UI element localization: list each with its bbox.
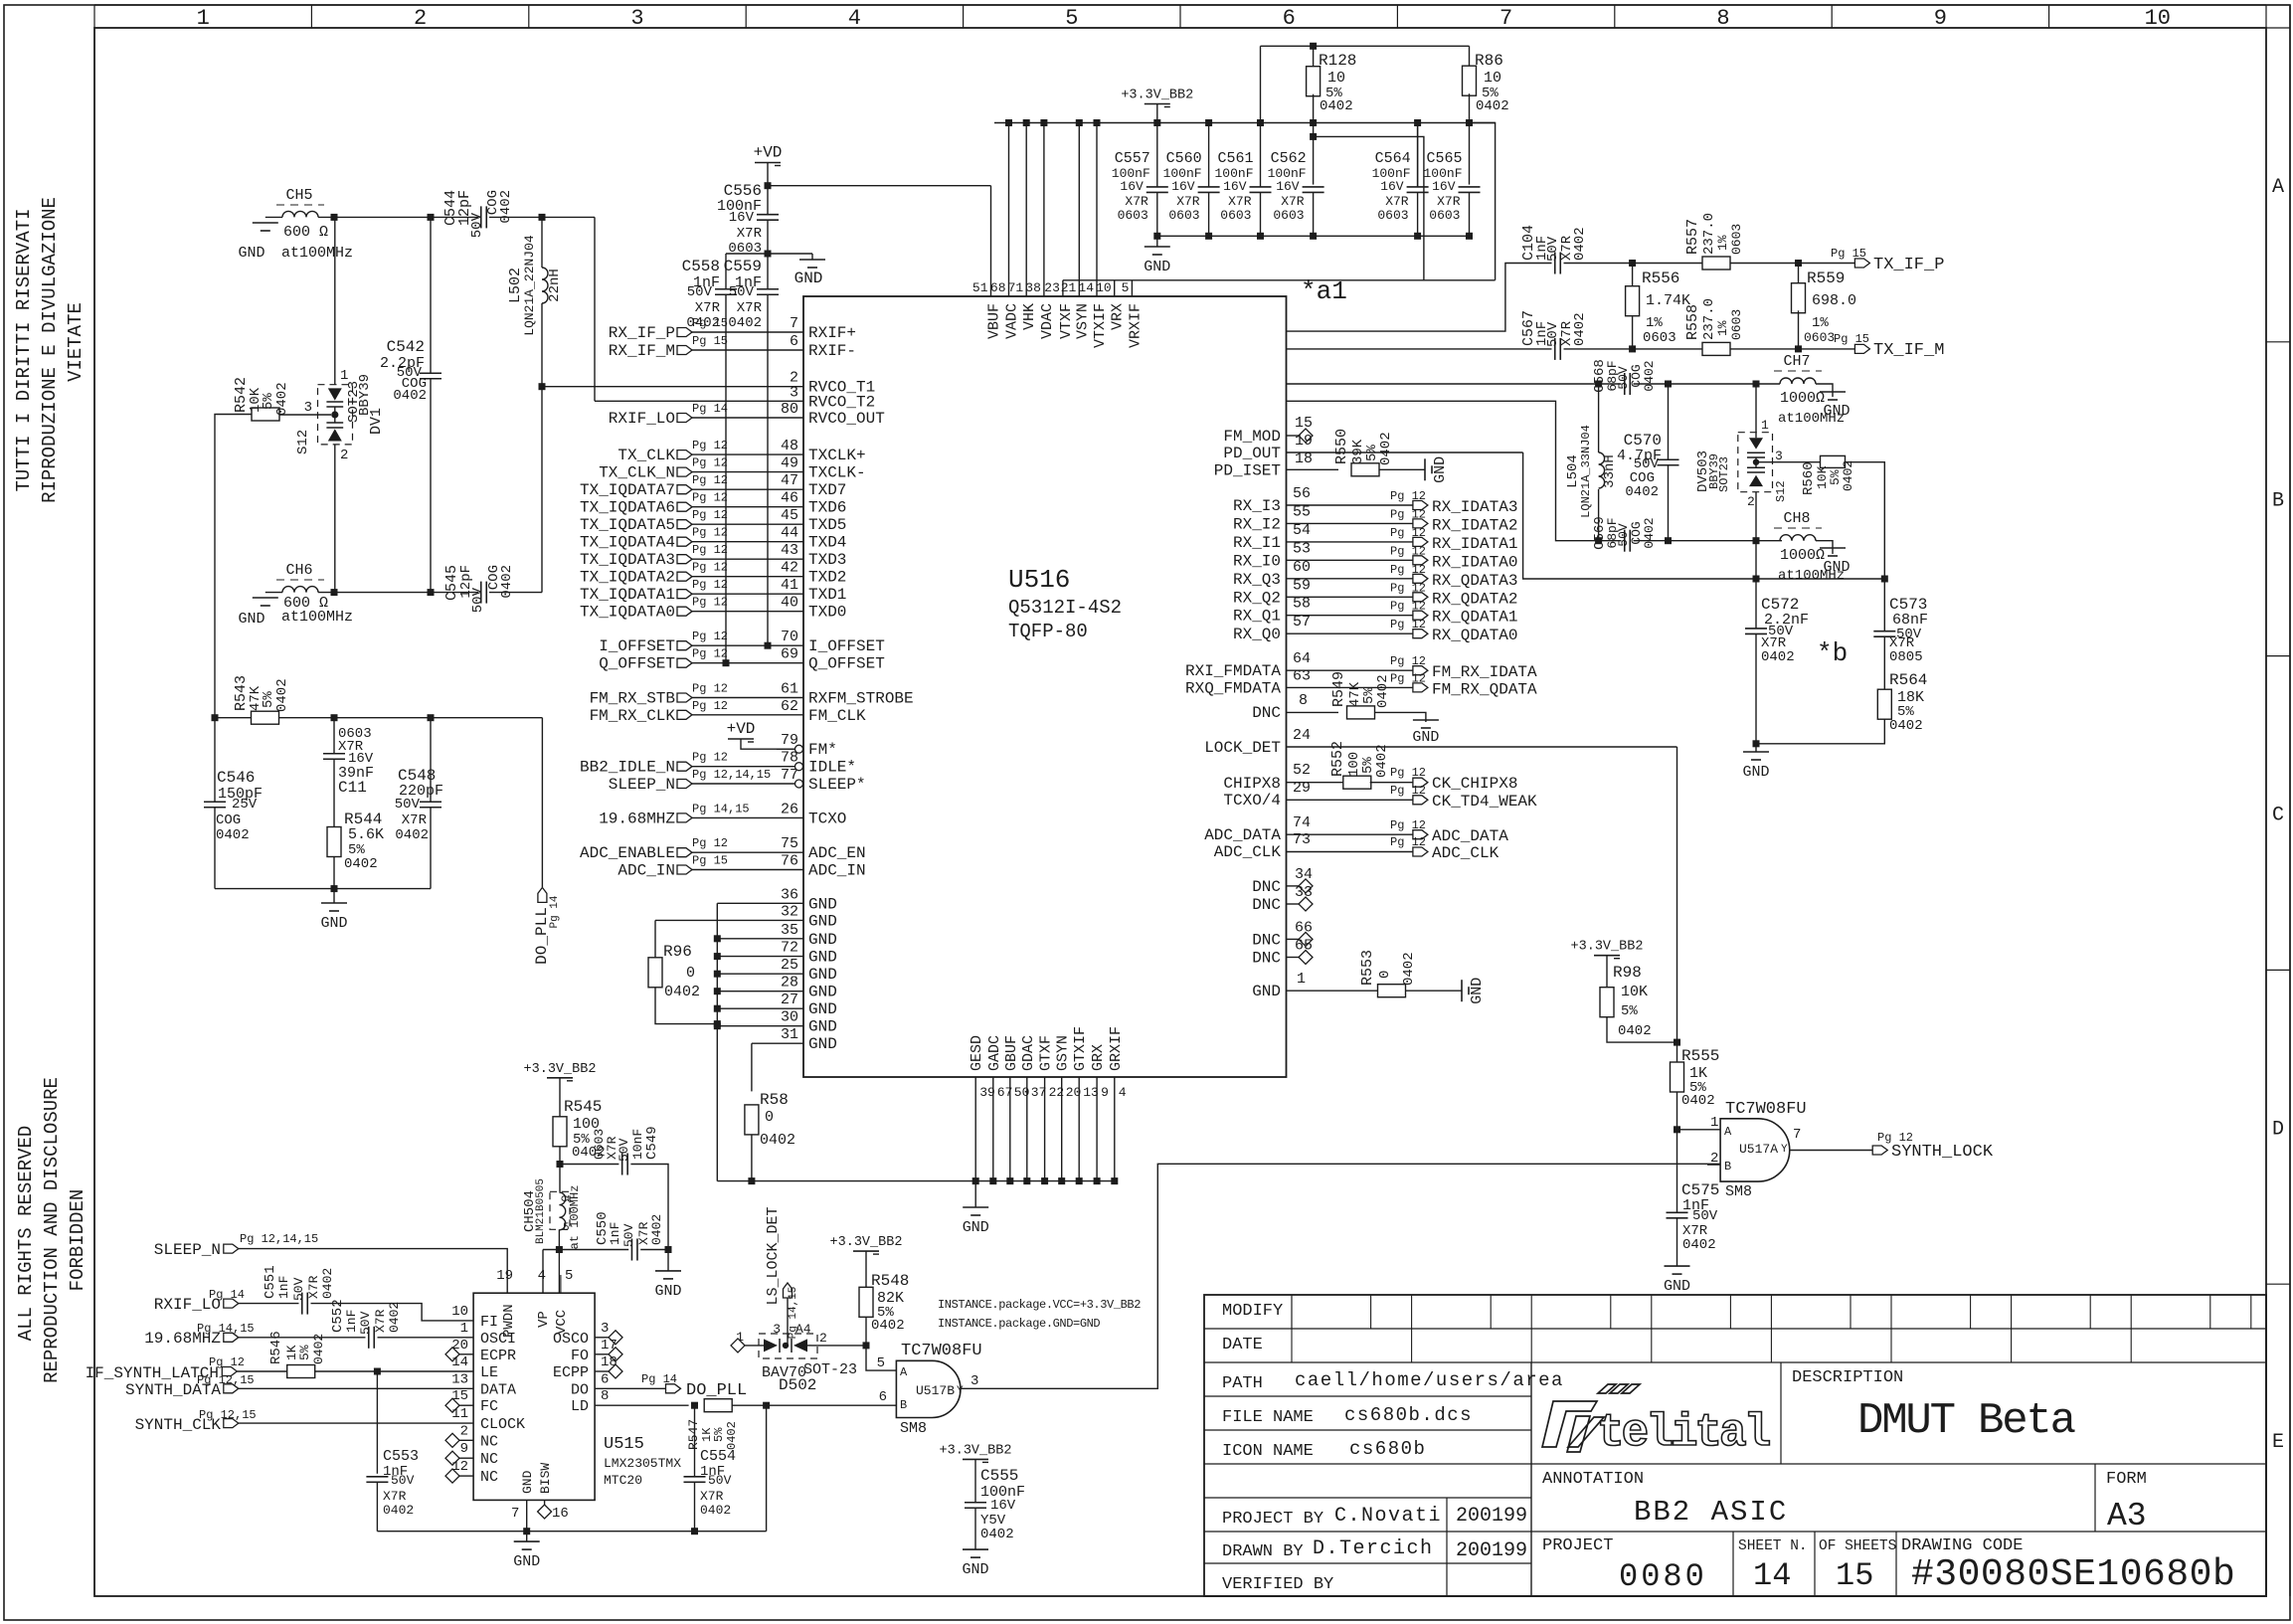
svg-text:10: 10 bbox=[451, 1304, 468, 1320]
svg-text:U516: U516 bbox=[1008, 565, 1070, 595]
svg-text:GND: GND bbox=[808, 984, 837, 1001]
wire CH7 right bbox=[1816, 384, 1833, 397]
svg-text:3: 3 bbox=[1775, 449, 1783, 463]
connector SLEEP_N bbox=[677, 780, 692, 789]
junction bbox=[1753, 576, 1760, 583]
svg-text:50V: 50V bbox=[470, 587, 486, 613]
pin 22 GTXF bbox=[1044, 1077, 1046, 1181]
capacitor C546 bbox=[214, 718, 216, 803]
svg-text:14: 14 bbox=[451, 1354, 468, 1370]
title block outline bbox=[1204, 1295, 2266, 1596]
svg-text:GND: GND bbox=[238, 611, 265, 628]
wire R559 bottom bbox=[1798, 310, 1800, 349]
svg-text:52: 52 bbox=[1293, 762, 1311, 779]
resistor R548 bbox=[859, 1287, 873, 1317]
wire C555 bottom bbox=[974, 1508, 976, 1549]
svg-text:PD_ISET: PD_ISET bbox=[1214, 462, 1281, 480]
connector FM_RX_IDATA bbox=[1413, 666, 1428, 675]
svg-text:3: 3 bbox=[304, 400, 312, 416]
wire DV1 pin2 down bbox=[334, 445, 336, 593]
capacitor C569 bbox=[1624, 530, 1626, 552]
svg-text:Q_OFFSET: Q_OFFSET bbox=[808, 655, 885, 673]
svg-text:VTXIF: VTXIF bbox=[1092, 303, 1109, 348]
wire L502 bottom bbox=[541, 303, 543, 387]
wire R545 top bbox=[559, 1078, 561, 1117]
ground R553 bbox=[1461, 980, 1463, 1001]
svg-text:RVCO_T2: RVCO_T2 bbox=[808, 393, 875, 411]
wire pin12 TXIF+ route bbox=[1287, 264, 1552, 332]
svg-text:GND: GND bbox=[808, 1018, 837, 1036]
svg-text:1%: 1% bbox=[1646, 315, 1663, 331]
svg-text:RX_QDATA1: RX_QDATA1 bbox=[1432, 609, 1517, 627]
gate U517A bbox=[1720, 1119, 1790, 1181]
wire CH6 row bbox=[318, 592, 478, 594]
capacitor C573 bbox=[1873, 631, 1895, 632]
connector FM_RX_CLK bbox=[677, 710, 692, 719]
svg-text:TX_IQDATA5: TX_IQDATA5 bbox=[580, 516, 675, 534]
svg-text:53: 53 bbox=[1293, 540, 1311, 557]
resistor R128 bbox=[1313, 46, 1315, 69]
svg-text:RX_I3: RX_I3 bbox=[1233, 497, 1281, 515]
pin 40 TXD0 bbox=[691, 611, 803, 613]
svg-text:10: 10 bbox=[2145, 6, 2171, 31]
svg-text:TC7W08FU: TC7W08FU bbox=[901, 1342, 982, 1360]
pin 2 RVCO_T1 bbox=[777, 386, 803, 388]
wire LS_LOCK_DET down bbox=[787, 1298, 789, 1346]
svg-text:X7R: X7R bbox=[402, 812, 428, 828]
wire CH5 to C544 bbox=[318, 216, 478, 218]
svg-text:B: B bbox=[900, 1398, 907, 1412]
capacitor C559 bbox=[767, 254, 769, 289]
ground bottom bus bbox=[974, 1181, 976, 1207]
svg-text:ECPR: ECPR bbox=[480, 1348, 516, 1364]
svg-text:C546: C546 bbox=[217, 769, 255, 787]
ground CH7 bbox=[1820, 391, 1846, 393]
svg-text:Q5312I-4S2: Q5312I-4S2 bbox=[1008, 597, 1122, 619]
svg-text:RX_IF_P: RX_IF_P bbox=[609, 324, 675, 342]
svg-text:25V: 25V bbox=[232, 797, 258, 812]
resistor R558 bbox=[1702, 342, 1730, 355]
pin 63 RXQ_FMDATA bbox=[1287, 686, 1413, 688]
capacitor C557 bbox=[1156, 123, 1158, 187]
wire rail drop left bbox=[1260, 46, 1262, 122]
svg-text:TXD5: TXD5 bbox=[808, 516, 846, 534]
pin 6 RXIF- bbox=[691, 349, 803, 351]
capacitor C560 bbox=[1208, 123, 1210, 187]
svg-text:RX_IDATA3: RX_IDATA3 bbox=[1432, 498, 1517, 516]
wire R548 bottom bbox=[865, 1317, 867, 1346]
wire R555 top bbox=[1676, 1042, 1678, 1062]
svg-text:X7R: X7R bbox=[737, 226, 763, 242]
svg-text:24: 24 bbox=[1293, 727, 1311, 744]
wire L502 col to C545 row bbox=[541, 387, 543, 593]
wire U517A input B bbox=[1707, 1164, 1720, 1166]
svg-text:+3.3V_BB2: +3.3V_BB2 bbox=[830, 1235, 903, 1250]
pin 36 GND bbox=[717, 902, 803, 904]
ground U515 bbox=[526, 1532, 528, 1541]
junction bbox=[714, 1005, 721, 1012]
svg-text:Pg 12: Pg 12 bbox=[692, 491, 728, 505]
svg-text:DO_PLL: DO_PLL bbox=[686, 1381, 747, 1400]
svg-text:R558: R558 bbox=[1684, 304, 1701, 340]
svg-text:0402: 0402 bbox=[1374, 744, 1390, 778]
svg-text:0402: 0402 bbox=[871, 1318, 905, 1334]
wire gnd bus left low bbox=[215, 888, 431, 890]
svg-text:I_OFFSET: I_OFFSET bbox=[808, 637, 885, 655]
pin 80 RVCO_OUT bbox=[691, 417, 803, 419]
svg-text:DNC: DNC bbox=[1252, 704, 1281, 722]
capacitor C550 bbox=[630, 1239, 632, 1261]
svg-text:RXIF+: RXIF+ bbox=[808, 324, 856, 342]
svg-text:R128: R128 bbox=[1319, 52, 1356, 70]
svg-text:X7R: X7R bbox=[373, 1309, 388, 1333]
wire CH504 to VCC bbox=[558, 1229, 560, 1293]
wire RXIF_LO to C551 bbox=[239, 1303, 299, 1305]
ground R549 bbox=[1413, 719, 1439, 721]
svg-text:X7R: X7R bbox=[700, 1489, 724, 1504]
pin 44 TXD4 bbox=[691, 541, 803, 543]
svg-text:R86: R86 bbox=[1475, 52, 1503, 70]
junction bbox=[1629, 260, 1636, 267]
svg-text:BB2 ASIC: BB2 ASIC bbox=[1634, 1496, 1788, 1529]
svg-text:0402: 0402 bbox=[760, 1132, 795, 1149]
wire R558 right bbox=[1730, 348, 1854, 350]
svg-text:50V: 50V bbox=[1692, 1208, 1718, 1224]
svg-text:0080: 0080 bbox=[1619, 1558, 1707, 1595]
svg-text:TX_CLK: TX_CLK bbox=[617, 447, 675, 464]
svg-text:VDAC: VDAC bbox=[1039, 303, 1056, 339]
capacitor C549 bbox=[621, 1154, 623, 1175]
wire cap bank ground bus bbox=[1157, 235, 1470, 237]
svg-text:NC: NC bbox=[480, 1433, 498, 1450]
wire C554 bottom bbox=[694, 1482, 696, 1531]
svg-text:REPRODUCTION AND DISCLOSURE: REPRODUCTION AND DISCLOSURE bbox=[41, 1077, 63, 1383]
junction bbox=[714, 935, 721, 942]
junction bbox=[1040, 119, 1047, 126]
svg-text:23: 23 bbox=[1044, 280, 1060, 295]
pin 72 GND bbox=[717, 956, 803, 958]
pin 24 LOCK_DET bbox=[1287, 746, 1677, 748]
pin 59 RX_Q2 bbox=[1287, 596, 1413, 598]
pin 21 VSYN bbox=[1078, 123, 1080, 297]
svg-text:PD_OUT: PD_OUT bbox=[1223, 445, 1281, 462]
svg-text:0402: 0402 bbox=[700, 1503, 731, 1518]
pin 8 DNC bbox=[1287, 711, 1339, 713]
svg-text:36: 36 bbox=[781, 886, 798, 903]
svg-text:0603: 0603 bbox=[1804, 330, 1835, 345]
svg-text:FM_RX_QDATA: FM_RX_QDATA bbox=[1432, 680, 1537, 698]
connector TX_CLK bbox=[677, 451, 692, 459]
svg-text:5%: 5% bbox=[712, 1427, 726, 1442]
svg-text:9: 9 bbox=[460, 1441, 468, 1457]
capacitor C562 bbox=[1303, 186, 1324, 188]
svg-text:16V: 16V bbox=[1276, 179, 1300, 194]
pin 33 DNC bbox=[1287, 903, 1300, 905]
svg-text:SLEEP_N: SLEEP_N bbox=[154, 1241, 221, 1259]
svg-text:ADC_CLK: ADC_CLK bbox=[1214, 843, 1282, 861]
svg-text:6: 6 bbox=[879, 1389, 887, 1405]
wire C569 right bbox=[1634, 540, 1783, 542]
ground C575 bbox=[1665, 1265, 1690, 1267]
connector DO_PLL out bbox=[666, 1384, 681, 1393]
pin 14 VTXIF bbox=[1096, 123, 1098, 297]
svg-text:48: 48 bbox=[781, 438, 798, 454]
svg-text:R555: R555 bbox=[1681, 1047, 1719, 1065]
svg-text:62: 62 bbox=[781, 698, 798, 715]
pin 50 GBUF bbox=[1009, 1077, 1011, 1181]
svg-text:49: 49 bbox=[781, 455, 798, 472]
wire C550 right bbox=[640, 1249, 668, 1251]
junction bbox=[714, 988, 721, 994]
svg-text:0402: 0402 bbox=[1642, 517, 1657, 548]
pin 26 TCXO bbox=[691, 816, 803, 818]
svg-text:73: 73 bbox=[1293, 831, 1311, 848]
svg-text:LQN21A_33NJ04: LQN21A_33NJ04 bbox=[1579, 425, 1593, 518]
pin 54 RX_I1 bbox=[1287, 541, 1413, 543]
svg-text:72: 72 bbox=[781, 940, 798, 957]
svg-text:DNC: DNC bbox=[1252, 896, 1281, 914]
svg-text:I_OFFSET: I_OFFSET bbox=[599, 637, 675, 655]
wire to R546 bbox=[237, 1370, 286, 1372]
svg-text:DESCRIPTION: DESCRIPTION bbox=[1792, 1368, 1903, 1387]
svg-text:OF SHEETS: OF SHEETS bbox=[1819, 1538, 1896, 1554]
ground CH5 bbox=[253, 222, 278, 224]
svg-text:16V: 16V bbox=[1120, 179, 1144, 194]
ground bottom right bbox=[1755, 744, 1757, 752]
svg-text:R546: R546 bbox=[268, 1331, 284, 1364]
pin 1 GND bbox=[1287, 990, 1378, 992]
connector IF_SYNTH_LATCH bbox=[222, 1367, 237, 1376]
wire C553 column bbox=[376, 1371, 378, 1474]
svg-text:1: 1 bbox=[1297, 971, 1306, 988]
IC U516 body bbox=[803, 296, 1287, 1077]
svg-text:4: 4 bbox=[538, 1268, 546, 1284]
connector TX_CLK_N bbox=[677, 467, 692, 476]
svg-text:Y: Y bbox=[1781, 1144, 1788, 1156]
junction bbox=[428, 214, 435, 221]
svg-text:DNC: DNC bbox=[1252, 878, 1281, 896]
svg-text:16V: 16V bbox=[1380, 179, 1404, 194]
connector RXIF_LO bbox=[677, 414, 692, 423]
wire to DATA bbox=[239, 1387, 473, 1389]
svg-text:Y: Y bbox=[957, 1385, 964, 1397]
svg-text:TC7W08FU: TC7W08FU bbox=[1725, 1100, 1807, 1119]
svg-text:LE: LE bbox=[480, 1364, 498, 1381]
svg-text:FM_MOD: FM_MOD bbox=[1223, 428, 1281, 446]
svg-text:Q_OFFSET: Q_OFFSET bbox=[599, 655, 675, 673]
svg-text:FM_CLK: FM_CLK bbox=[808, 707, 866, 725]
ground C556 bbox=[811, 254, 813, 260]
svg-text:ADC_EN: ADC_EN bbox=[808, 844, 866, 862]
svg-text:Pg 12: Pg 12 bbox=[692, 578, 728, 592]
junction bbox=[1023, 1177, 1030, 1184]
junction bbox=[714, 1020, 721, 1027]
svg-text:TXCLK+: TXCLK+ bbox=[808, 447, 866, 464]
svg-text:26: 26 bbox=[781, 801, 798, 817]
connector TX_IQDATA0 bbox=[677, 607, 692, 616]
connector RX_QDATA3 bbox=[1413, 574, 1428, 583]
connector ADC_IN bbox=[677, 865, 692, 874]
connector TX_IQDATA1 bbox=[677, 590, 692, 599]
svg-text:16V: 16V bbox=[990, 1498, 1016, 1514]
wire C559 bottom to I_OFFSET bbox=[767, 294, 769, 645]
svg-text:2: 2 bbox=[460, 1423, 468, 1439]
wire R544 bottom bbox=[333, 857, 335, 889]
junction bbox=[1153, 119, 1160, 126]
junction bbox=[556, 1246, 563, 1253]
svg-text:telital: telital bbox=[1597, 1407, 1770, 1459]
svg-text:0402: 0402 bbox=[1841, 460, 1855, 491]
connector RX_IF_P bbox=[677, 328, 692, 337]
pin 35 GND bbox=[717, 938, 803, 940]
wire C560 bottom bbox=[1208, 193, 1210, 237]
wire R549 right bbox=[1375, 712, 1426, 722]
svg-text:7: 7 bbox=[790, 315, 798, 332]
junction bbox=[331, 589, 338, 596]
wire R543 row left bbox=[215, 717, 252, 719]
junction bbox=[765, 642, 772, 649]
svg-text:GND: GND bbox=[513, 1553, 540, 1570]
connector FM_RX_STB bbox=[677, 693, 692, 702]
connector Q_OFFSET bbox=[677, 658, 692, 667]
wire C548 bottom bbox=[430, 808, 432, 889]
svg-text:ECPP: ECPP bbox=[553, 1364, 589, 1381]
wire C573 to R564 bbox=[1883, 636, 1885, 689]
connector RX_IDATA2 bbox=[1413, 519, 1428, 528]
pin 43 TXD3 bbox=[691, 558, 803, 560]
svg-text:ADC_CLK: ADC_CLK bbox=[1432, 844, 1499, 862]
svg-text:19.68MHZ: 19.68MHZ bbox=[144, 1330, 221, 1348]
pin 4 GRXIF bbox=[1114, 1077, 1116, 1181]
svg-text:0402: 0402 bbox=[686, 315, 720, 331]
junction bbox=[765, 251, 772, 258]
svg-text:+VD: +VD bbox=[754, 144, 783, 162]
svg-text:TX_IQDATA0: TX_IQDATA0 bbox=[580, 604, 675, 622]
svg-text:SM8: SM8 bbox=[1725, 1183, 1752, 1200]
resistor R547 bbox=[704, 1399, 732, 1412]
svg-text:0603: 0603 bbox=[1729, 224, 1744, 255]
svg-text:0402: 0402 bbox=[725, 1421, 739, 1450]
svg-text:CHIPX8: CHIPX8 bbox=[1223, 775, 1281, 793]
svg-text:57: 57 bbox=[1293, 614, 1311, 631]
svg-text:S12: S12 bbox=[295, 430, 311, 454]
svg-text:10K: 10K bbox=[1621, 984, 1648, 1000]
no-connect diamond bbox=[445, 1398, 459, 1412]
junction bbox=[1881, 576, 1888, 583]
svg-text:0: 0 bbox=[686, 965, 695, 982]
svg-text:0603: 0603 bbox=[1729, 309, 1744, 340]
wire R553 right bbox=[1406, 990, 1463, 992]
svg-text:GADC: GADC bbox=[986, 1035, 1003, 1071]
svg-text:11: 11 bbox=[451, 1406, 468, 1422]
svg-text:GND: GND bbox=[808, 912, 837, 930]
svg-text:C557: C557 bbox=[1115, 150, 1150, 167]
svg-text:DO: DO bbox=[571, 1381, 589, 1398]
svg-text:1%: 1% bbox=[1812, 315, 1829, 331]
annotation box bbox=[2094, 1464, 2096, 1532]
svg-text:C553: C553 bbox=[383, 1448, 419, 1465]
svg-text:33nH: 33nH bbox=[1602, 454, 1618, 488]
svg-text:50V: 50V bbox=[358, 1311, 373, 1335]
svg-text:R548: R548 bbox=[871, 1272, 909, 1290]
pin 7 RXIF+ bbox=[691, 331, 803, 333]
svg-text:44: 44 bbox=[781, 525, 798, 542]
svg-text:Pg 12: Pg 12 bbox=[692, 526, 728, 540]
pin 79 FM* bbox=[777, 748, 803, 750]
svg-text:*b: *b bbox=[1817, 638, 1848, 668]
svg-text:C542: C542 bbox=[387, 338, 425, 356]
svg-text:C559: C559 bbox=[724, 258, 762, 275]
capacitor C544 bbox=[480, 206, 482, 228]
svg-text:C549: C549 bbox=[644, 1126, 660, 1160]
wire to U517A input A bbox=[1677, 1129, 1721, 1131]
svg-text:GND: GND bbox=[808, 966, 837, 984]
svg-text:19: 19 bbox=[496, 1268, 513, 1284]
junction bbox=[714, 971, 721, 978]
wire C104 right bbox=[1564, 263, 1703, 265]
svg-text:0603: 0603 bbox=[1220, 208, 1251, 223]
svg-text:D.Tercich: D.Tercich bbox=[1313, 1537, 1434, 1560]
svg-text:16: 16 bbox=[552, 1506, 569, 1522]
resistor R58 bbox=[745, 1105, 759, 1135]
junction bbox=[1466, 119, 1473, 126]
svg-text:X7R: X7R bbox=[737, 300, 763, 316]
svg-text:Pg 12: Pg 12 bbox=[692, 647, 728, 661]
svg-text:C561: C561 bbox=[1217, 150, 1253, 167]
svg-text:caell/home/users/area: caell/home/users/area bbox=[1295, 1369, 1564, 1391]
svg-text:R556: R556 bbox=[1642, 270, 1679, 287]
svg-text:C554: C554 bbox=[700, 1448, 736, 1465]
wire R545 bottom bbox=[559, 1147, 561, 1192]
capacitor C554 bbox=[684, 1476, 706, 1478]
wire C549 row bbox=[560, 1164, 618, 1166]
wire pin17 TVCO_T1 row bbox=[1287, 383, 1622, 385]
svg-text:VADC: VADC bbox=[1004, 303, 1021, 339]
wire R548 top bbox=[865, 1251, 867, 1287]
svg-text:Pg 14,15: Pg 14,15 bbox=[692, 802, 750, 815]
junction bbox=[1005, 119, 1012, 126]
wire gnd bus vertical bbox=[716, 903, 718, 1180]
wire C554 column bbox=[694, 1405, 696, 1477]
wire r96 branch bbox=[654, 920, 656, 958]
svg-text:INSTANCE.package.VCC=+3.3V_BB2: INSTANCE.package.VCC=+3.3V_BB2 bbox=[938, 1298, 1141, 1312]
svg-text:DATE: DATE bbox=[1222, 1336, 1263, 1354]
svg-text:CH8: CH8 bbox=[1783, 510, 1810, 527]
svg-text:0402: 0402 bbox=[320, 1268, 335, 1299]
svg-text:MODIFY: MODIFY bbox=[1222, 1302, 1283, 1321]
no-connect diamond bbox=[1299, 897, 1313, 911]
svg-text:IDLE*: IDLE* bbox=[808, 759, 856, 777]
wire to C552 bbox=[239, 1337, 366, 1339]
junction bbox=[863, 1342, 870, 1349]
svg-text:GND: GND bbox=[1432, 456, 1449, 483]
svg-text:PROJECT: PROJECT bbox=[1542, 1536, 1613, 1555]
svg-text:MTC20: MTC20 bbox=[604, 1473, 642, 1488]
svg-text:TXD1: TXD1 bbox=[808, 586, 846, 604]
resistor R557 bbox=[1702, 257, 1730, 270]
top column ruler band bbox=[94, 4, 2266, 6]
capacitor C567 bbox=[1554, 338, 1556, 360]
junction bbox=[665, 1246, 672, 1253]
svg-text:A: A bbox=[1724, 1125, 1732, 1139]
ground C555 bbox=[963, 1548, 988, 1550]
svg-text:0402: 0402 bbox=[274, 382, 290, 416]
svg-text:RX_QDATA3: RX_QDATA3 bbox=[1432, 572, 1517, 590]
connector RX_QDATA0 bbox=[1413, 630, 1428, 638]
svg-text:0805: 0805 bbox=[1889, 649, 1923, 665]
svg-text:SLEEP*: SLEEP* bbox=[808, 776, 866, 794]
svg-text:6: 6 bbox=[790, 333, 798, 350]
